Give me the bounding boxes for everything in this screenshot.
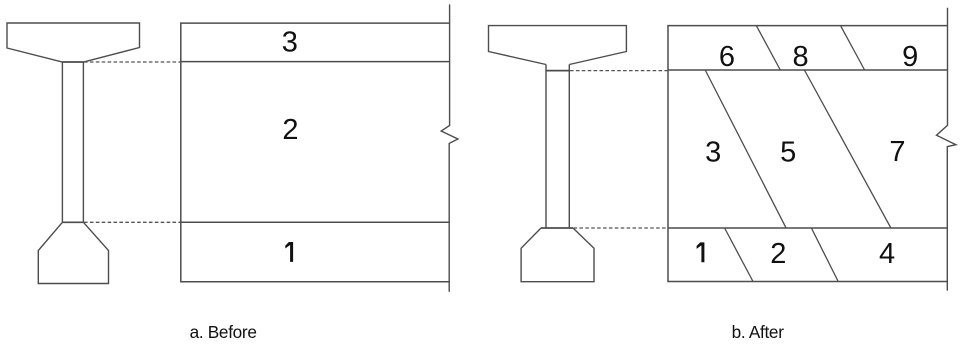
before slab boundary 2/1 [181,221,450,223]
right girder web [546,65,569,229]
svg-text:2: 2 [282,114,298,146]
right girder web bottom tick [541,227,573,229]
diagonal divider 6/8 [756,26,780,70]
left girder web bottom tick [62,221,83,223]
after slab boundary top [668,69,948,71]
right girder web top tick [546,70,569,72]
before break line with zigzag [441,4,458,291]
region label 1 [285,242,293,262]
diagonal divider 2/4 [811,228,838,282]
svg-text:b. After: b. After [732,322,785,342]
svg-text:4: 4 [879,238,895,270]
before slab boundary 3/2 [181,61,450,63]
svg-text:3: 3 [282,26,298,58]
svg-text:7: 7 [889,136,905,168]
dashed projection line right top [570,70,668,72]
svg-text:6: 6 [719,41,735,73]
svg-text:9: 9 [902,41,918,73]
diagonal divider 1/2 [725,228,753,282]
region label 1 after [697,242,705,262]
after slab boundary bottom [668,227,948,229]
left girder web top tick [62,61,83,63]
right girder top flange [489,26,627,65]
dashed projection line left bottom [84,221,181,223]
diagonal divider 8/9 [841,26,865,70]
left girder top flange [7,23,140,62]
right girder bottom flange [521,228,594,282]
svg-text:a. Before: a. Before [190,322,257,342]
diagonal divider 3/5 [705,70,786,228]
before slab outline [181,23,450,282]
svg-text:3: 3 [705,136,721,168]
after break line with zigzag [937,8,956,291]
dashed projection line left top [84,61,181,63]
diagonal divider 5/7 [804,70,890,228]
left girder bottom flange [38,222,108,283]
svg-text:2: 2 [770,238,786,270]
left girder web [62,62,83,222]
after slab outline [668,26,948,282]
svg-text:5: 5 [780,136,796,168]
dashed projection line right bottom [574,227,668,229]
svg-text:8: 8 [793,41,809,73]
